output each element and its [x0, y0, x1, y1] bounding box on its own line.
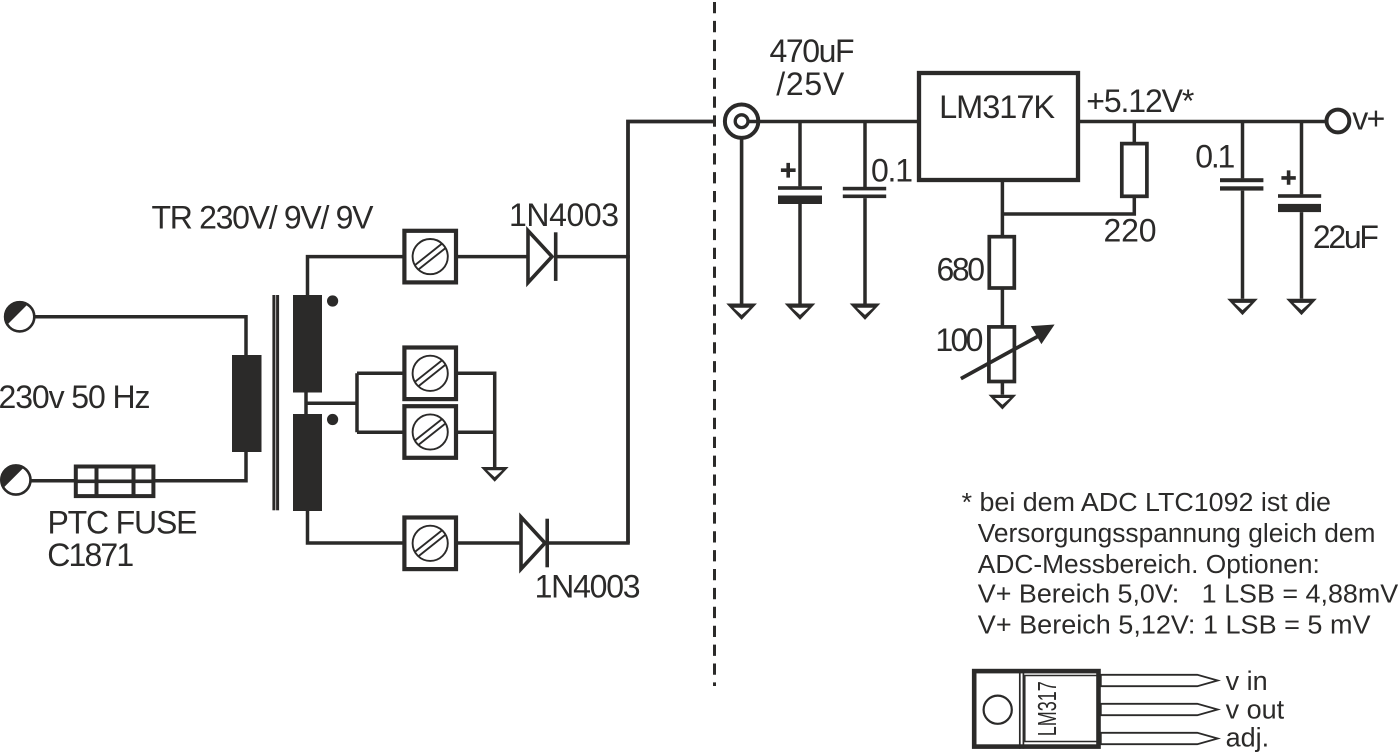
wire secondary1 top to screw terminal — [308, 257, 405, 295]
resistor R3 100 (trimmer) — [989, 327, 1015, 382]
capacitor C1 470uF plates — [778, 186, 822, 204]
wire J2 to fuse — [31, 479, 77, 483]
wire DC bus vertical and top feed — [628, 122, 713, 544]
polarity dot secondary 1 — [327, 295, 338, 306]
svg-text:v+: v+ — [1352, 101, 1385, 137]
wire C4 to ground — [1300, 212, 1304, 299]
capacitor C3 0.1 plates — [1220, 178, 1263, 190]
svg-text:/25V: /25V — [776, 66, 845, 102]
svg-text:V+ Bereich 5,12V: 1 LSB = 5 mV: V+ Bereich 5,12V: 1 LSB = 5 mV — [978, 612, 1371, 640]
wire screw X1 to diode D1 — [456, 255, 528, 259]
wire center tap junction — [304, 393, 308, 415]
ground (C1) — [785, 304, 816, 320]
wire R3 to ground — [1001, 382, 1005, 395]
ground (jack) — [726, 304, 757, 320]
plus sign C1 — [781, 163, 796, 178]
wire main rail left — [748, 120, 919, 124]
package tab divider — [1020, 669, 1024, 749]
wire C1 to ground — [798, 204, 802, 304]
input jack (DC in) — [725, 105, 758, 138]
wire screw X4 to diode D2 — [456, 541, 521, 545]
resistor R1 220 — [1122, 144, 1147, 197]
svg-text:680: 680 — [937, 252, 986, 288]
wire U1 adj pin — [1001, 180, 1005, 237]
svg-text:LM317K: LM317K — [939, 89, 1055, 125]
capacitor C4 22uF plates — [1278, 194, 1321, 212]
package inner body rect — [1025, 676, 1098, 742]
wire jack to ground — [740, 138, 744, 304]
wire rail to R1 220 — [1133, 122, 1137, 144]
svg-text:0.1: 0.1 — [871, 152, 913, 188]
svg-text:adj.: adj. — [1226, 723, 1270, 753]
pin 2 (v out) — [1101, 704, 1218, 715]
wire main rail right — [1078, 120, 1325, 124]
pin 3 (adj) — [1101, 733, 1218, 744]
ground (secondary center tap) — [481, 467, 509, 482]
capacitor C3 0.1 wire — [1241, 122, 1245, 179]
wire C2 to ground — [863, 198, 867, 303]
svg-text:LM317: LM317 — [1034, 681, 1062, 736]
transformer secondary winding 2 — [293, 414, 322, 511]
wire fuse to transformer primary bottom — [153, 452, 246, 481]
ground (R3) — [989, 395, 1017, 410]
connector J1 (mains live terminal) — [4, 301, 34, 331]
svg-text:Versorgungsspannung gleich dem: Versorgungsspannung gleich dem — [978, 520, 1376, 548]
resistor R2 680 — [989, 237, 1014, 288]
svg-text:* bei dem ADC LTC1092 ist die: * bei dem ADC LTC1092 ist die — [962, 489, 1331, 517]
pin 1 (v in) — [1101, 675, 1218, 686]
wire X2/X3 to ground — [456, 373, 495, 467]
svg-text:PTC FUSE: PTC FUSE — [48, 505, 198, 541]
svg-text:100: 100 — [935, 322, 983, 358]
ground (C4) — [1286, 299, 1317, 315]
diode D1 1N4003 — [528, 231, 556, 283]
svg-text:V+ Bereich 5,0V: 1 LSB = 4,8: V+ Bereich 5,0V: 1 LSB = 4,88mV — [978, 581, 1398, 609]
wire D2 to DC bus — [549, 541, 630, 545]
terminal v+ — [1327, 110, 1350, 133]
diode D2 1N4003 — [521, 517, 547, 569]
screw terminal X4 — [404, 518, 456, 570]
wire R2 to R3 — [1001, 288, 1005, 327]
svg-text:+5.12V*: +5.12V* — [1086, 83, 1194, 119]
wire D1 to DC bus — [558, 255, 630, 259]
svg-text:TR 230V/ 9V/ 9V: TR 230V/ 9V/ 9V — [152, 200, 375, 236]
svg-text:0.1: 0.1 — [1195, 138, 1235, 174]
capacitor C4 22uF wire — [1300, 122, 1304, 195]
svg-text:220: 220 — [1104, 213, 1157, 249]
transformer secondary winding 1 — [293, 295, 322, 393]
wire C3 to ground — [1241, 191, 1245, 299]
LM317 package outline (TO-220) — [974, 671, 1098, 747]
transformer TR1 primary winding — [232, 355, 262, 452]
svg-text:470uF: 470uF — [770, 33, 855, 69]
fuse F1 PTC — [76, 467, 154, 497]
trimmer arrow — [961, 325, 1055, 379]
transformer core — [272, 295, 279, 510]
screw terminal X2 — [404, 348, 456, 400]
capacitor C2 0.1 plates — [843, 187, 886, 198]
svg-text:22uF: 22uF — [1313, 219, 1379, 255]
wire secondary2 bottom to screw terminal — [308, 511, 405, 543]
separator dashed line — [713, 2, 716, 686]
polarity dot secondary 2 — [327, 414, 338, 425]
svg-text:v out: v out — [1226, 694, 1285, 724]
screw terminal X1 — [404, 231, 456, 283]
capacitor C1 470uF wire — [798, 122, 802, 187]
plus sign C4 — [1281, 170, 1295, 184]
wire J1 to transformer primary top — [34, 317, 246, 356]
wire center tap to terminal split — [306, 373, 404, 432]
screw terminal X3 — [404, 406, 456, 458]
connector J2 (mains neutral terminal) — [0, 464, 30, 494]
svg-text:230v 50 Hz: 230v 50 Hz — [0, 379, 151, 415]
svg-text:1N4003: 1N4003 — [509, 197, 619, 233]
svg-text:ADC-Messbereich. Optionen:: ADC-Messbereich. Optionen: — [978, 551, 1320, 579]
regulator U1 LM317K — [919, 73, 1078, 180]
capacitor C2 0.1 wire — [863, 122, 867, 188]
ground (C2) — [850, 304, 881, 320]
package mounting hole — [984, 696, 1012, 724]
svg-text:v in: v in — [1226, 666, 1268, 696]
svg-text:C1871: C1871 — [47, 537, 134, 573]
wire adj node to R1 — [1002, 196, 1134, 214]
svg-text:1N4003: 1N4003 — [535, 569, 641, 605]
ground (C3) — [1227, 299, 1258, 315]
